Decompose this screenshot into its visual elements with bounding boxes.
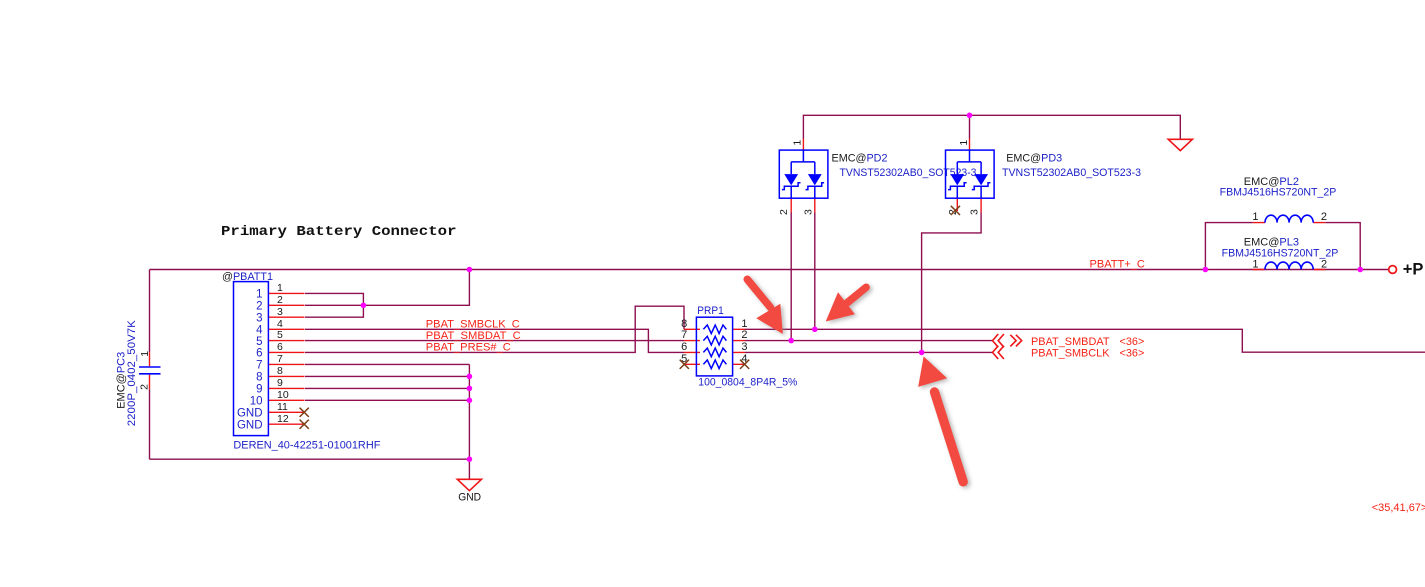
inductor PL3 pin stubs (1253, 269, 1326, 271)
svg-text:11: 11 (277, 401, 288, 413)
svg-text:2: 2 (139, 384, 151, 390)
connector @PBATT1 body (234, 282, 269, 436)
wire PRP1 pin2 to PBAT_SMBDAT offpage (745, 340, 993, 342)
PRP1 pin numbers right 1,2,3,4 (741, 318, 747, 365)
svg-text:GND: GND (237, 408, 263, 420)
svg-text:3: 3 (969, 209, 981, 215)
wire PBAT_SMBDAT_C row5 to PRP1 pin7 (305, 340, 684, 342)
wire PD3 pin1 up to GND net (969, 115, 971, 138)
no-connect X pin11 (300, 408, 309, 417)
wire row10 (305, 399, 469, 401)
junction dot pins1-3 loop (361, 303, 367, 309)
no-connect X PRP1 pin5 (680, 360, 689, 369)
diode PD2 right TVS triangle (808, 174, 822, 185)
diode PD3 zener cathode bars (948, 183, 990, 198)
junction dot PD3 pin3 on row6 (919, 350, 925, 356)
diode PD2 left TVS triangle (784, 174, 798, 185)
svg-text:8: 8 (256, 372, 262, 384)
svg-text:6: 6 (256, 348, 262, 360)
inductor EMC@PL3 coil arcs (1265, 262, 1313, 269)
junction dot PL branch left (1203, 267, 1209, 273)
svg-text:PBAT_SMBDAT: PBAT_SMBDAT (1031, 336, 1110, 348)
svg-text:6: 6 (681, 341, 687, 353)
svg-text:12: 12 (277, 413, 289, 425)
inductor EMC@PL2 coil arcs (1265, 215, 1313, 222)
no-connect X PD3 pin2 (951, 206, 960, 215)
svg-text:8: 8 (681, 318, 687, 330)
svg-text:7: 7 (681, 329, 687, 341)
wire row9 (305, 387, 469, 389)
junction dot PD2 pin2 on row5 (788, 338, 794, 344)
no-connect X PRP1 pin4 (740, 360, 749, 369)
svg-text:1: 1 (256, 289, 262, 301)
annotation arrow 2 at PD2 pin3 junction (826, 287, 866, 321)
diode array EMC@PD3 body (946, 150, 995, 198)
capacitor EMC@PC3 pin leads (149, 352, 151, 389)
offpage connector chevrons PBAT_SMBCLK (993, 346, 1004, 359)
svg-text:9: 9 (277, 377, 283, 389)
svg-text:10: 10 (277, 389, 289, 401)
resistor pack PRP1 left pin stubs (684, 329, 700, 364)
svg-text:@PBATT1: @PBATT1 (222, 271, 273, 283)
wire left vertical from main to bottom (cap branch) (149, 270, 151, 460)
svg-text:3: 3 (741, 341, 747, 353)
diode PD3 right TVS triangle (974, 174, 988, 185)
svg-text:<35,41,67>: <35,41,67> (1372, 502, 1425, 514)
wire vertical pins7-10 to GND (468, 364, 470, 479)
svg-text:EMC@PD2: EMC@PD2 (832, 153, 888, 165)
svg-text:10: 10 (250, 396, 263, 408)
svg-text:2: 2 (1321, 211, 1327, 223)
svg-text:3: 3 (277, 306, 283, 318)
svg-text:5: 5 (256, 336, 262, 348)
svg-text:1: 1 (958, 140, 970, 146)
junction dot GND net at PD3 pin1 (967, 113, 973, 119)
resistor PRP1 element row4 (703, 360, 726, 369)
ground symbol top right (1168, 139, 1192, 150)
svg-text:1: 1 (741, 318, 747, 330)
wire row8 (305, 375, 469, 377)
wire pins1-3 loop vertical (305, 270, 469, 318)
svg-text:5: 5 (277, 329, 283, 341)
diode PD3 pin stubs (957, 139, 981, 213)
wire PD2 pin2 down to row5 net (790, 213, 792, 341)
svg-text:GND: GND (237, 419, 263, 431)
no-connect X pin12 (300, 420, 309, 429)
svg-text:PBAT_SMBCLK: PBAT_SMBCLK (1031, 348, 1110, 360)
wire bottom horizontal to GND (150, 458, 470, 460)
wire GND top net from PD2 pin1 to top-right ground (803, 115, 1180, 139)
svg-text:2: 2 (741, 329, 747, 341)
annotation arrow 1 at PD2 pin2 junction (747, 279, 783, 334)
connector pin numbers 1-12 (277, 282, 289, 425)
svg-text:GND: GND (458, 491, 481, 503)
svg-text:3: 3 (802, 209, 814, 215)
junction dot row10 (467, 398, 473, 404)
svg-text:9: 9 (256, 384, 262, 396)
wire PRP1 pin1 to right edge with step down (745, 329, 1425, 352)
inductor PL2 pin stubs (1253, 222, 1326, 224)
svg-text:100_0804_8P4R_5%: 100_0804_8P4R_5% (698, 376, 797, 388)
svg-text:4: 4 (277, 318, 283, 330)
svg-text:2: 2 (1321, 258, 1327, 270)
PRP1 pin numbers left 8,7,6,5 (681, 318, 687, 365)
junction dot main wire at x469 (467, 267, 473, 273)
svg-text:DEREN_40-42251-01001RHF: DEREN_40-42251-01001RHF (233, 439, 380, 451)
svg-text:7: 7 (277, 353, 283, 365)
svg-text:<36>: <36> (1120, 348, 1145, 360)
svg-text:1: 1 (139, 351, 151, 357)
resistor PRP1 element row2 (703, 336, 726, 345)
resistor PRP1 element row1 (703, 325, 726, 334)
svg-text:6: 6 (277, 341, 283, 353)
junction dot PL branch right (1357, 267, 1363, 273)
resistor pack PRP1 body (696, 317, 732, 376)
svg-text:2: 2 (277, 294, 283, 306)
resistor pack PRP1 right pin stubs (733, 329, 745, 364)
diode array EMC@PD2 body (779, 150, 828, 198)
svg-text:8: 8 (277, 365, 283, 377)
wire PBAT_PRES#_C row6 jog up-over to PRP1 pin8 (305, 306, 684, 352)
capacitor EMC@PC3 plates (139, 367, 161, 374)
svg-text:2200P_0402_50V7K: 2200P_0402_50V7K (126, 320, 138, 427)
terminal +P open circle (1389, 266, 1397, 274)
svg-text:TVNST52302AB0_SOT523-3: TVNST52302AB0_SOT523-3 (1002, 167, 1141, 179)
svg-text:PBAT_SMBCLK_C: PBAT_SMBCLK_C (426, 318, 520, 330)
wire row7 (305, 363, 469, 365)
svg-text:+P: +P (1403, 261, 1424, 279)
resistor PRP1 element row3 (703, 348, 726, 357)
junction dot PD2 pin3 on row4 (812, 327, 818, 333)
svg-text:2: 2 (778, 209, 790, 215)
junction dot row8 (467, 374, 473, 380)
wire PD2 pin3 down to row4 net (814, 213, 816, 330)
svg-text:EMC@PD3: EMC@PD3 (1006, 153, 1062, 165)
wire PD3 pin3 down-left-down to row6 net (922, 213, 982, 353)
annotation arrow 3 at PD3 pin3 junction (918, 356, 963, 481)
svg-text:Primary Battery Connector: Primary Battery Connector (221, 224, 457, 240)
svg-text:2: 2 (256, 301, 262, 313)
svg-text:1: 1 (1252, 258, 1258, 270)
svg-text:1: 1 (792, 140, 804, 146)
wire PBATT+ main horizontal net (150, 269, 1389, 271)
diode PD2 internal common anode wiring (791, 150, 815, 174)
svg-text:PRP1: PRP1 (697, 305, 723, 317)
connector pin names 1-10,GND,GND (237, 289, 263, 432)
connector @PBATT1 NC pin stubs rows11-12 (268, 412, 304, 424)
svg-text:PBATT+_C: PBATT+_C (1090, 258, 1145, 270)
wire PL2 parallel branch (1205, 223, 1360, 270)
wire PBAT_SMBCLK_C row4 jog down to PRP1 pin6 (305, 329, 684, 352)
diode PD2 pin stubs (791, 139, 815, 213)
diode PD3 internal common anode wiring (957, 150, 981, 174)
connector @PBATT1 pin stubs rows1-10 (268, 293, 304, 400)
svg-text:7: 7 (256, 360, 262, 372)
ground symbol below connector (457, 479, 481, 490)
svg-text:1: 1 (1252, 211, 1258, 223)
svg-text:1: 1 (277, 282, 283, 294)
junction dot row9 (467, 386, 473, 392)
offpage connector chevrons PBAT_SMBDAT (993, 334, 1022, 347)
svg-text:3: 3 (256, 312, 262, 324)
svg-text:<36>: <36> (1120, 336, 1145, 348)
wire PRP1 pin3 to PBAT_SMBCLK offpage (745, 351, 993, 353)
diode PD2 zener cathode bars (782, 183, 824, 198)
svg-text:4: 4 (256, 325, 263, 337)
svg-text:PBAT_SMBDAT_C: PBAT_SMBDAT_C (426, 330, 521, 342)
svg-text:FBMJ4516HS720NT_2P: FBMJ4516HS720NT_2P (1220, 186, 1337, 198)
svg-text:PBAT_PRES#_C: PBAT_PRES#_C (426, 342, 511, 354)
junction dot bottom GND (467, 456, 473, 462)
diode PD3 left TVS triangle (950, 174, 964, 185)
